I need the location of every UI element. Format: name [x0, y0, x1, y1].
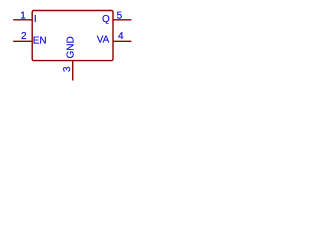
wire pin 1: [13, 19, 32, 21]
svg-text:1: 1: [20, 11, 26, 22]
pin number 1: [20, 11, 26, 22]
pin name GND: [66, 36, 77, 58]
pin name VA: [97, 34, 110, 45]
svg-text:2: 2: [21, 31, 27, 42]
svg-text:Q: Q: [102, 14, 110, 25]
pin name Q: [102, 14, 110, 25]
pin number 4: [118, 31, 124, 42]
pin number 3: [62, 66, 73, 72]
svg-text:5: 5: [117, 11, 123, 22]
svg-text:I: I: [34, 14, 37, 25]
svg-text:4: 4: [118, 31, 124, 42]
svg-text:3: 3: [62, 66, 73, 72]
svg-text:VA: VA: [97, 34, 110, 45]
wire pin 4: [113, 40, 131, 42]
IC body U1: [32, 11, 113, 61]
wire pin 3: [72, 61, 74, 81]
wire pin 2: [13, 40, 32, 42]
svg-text:EN: EN: [33, 35, 47, 46]
svg-text:GND: GND: [66, 36, 77, 58]
pin name EN: [33, 35, 47, 46]
pin name I: [34, 14, 37, 25]
pin number 5: [117, 11, 123, 22]
pin number 2: [21, 31, 27, 42]
wire pin 5: [113, 19, 131, 21]
